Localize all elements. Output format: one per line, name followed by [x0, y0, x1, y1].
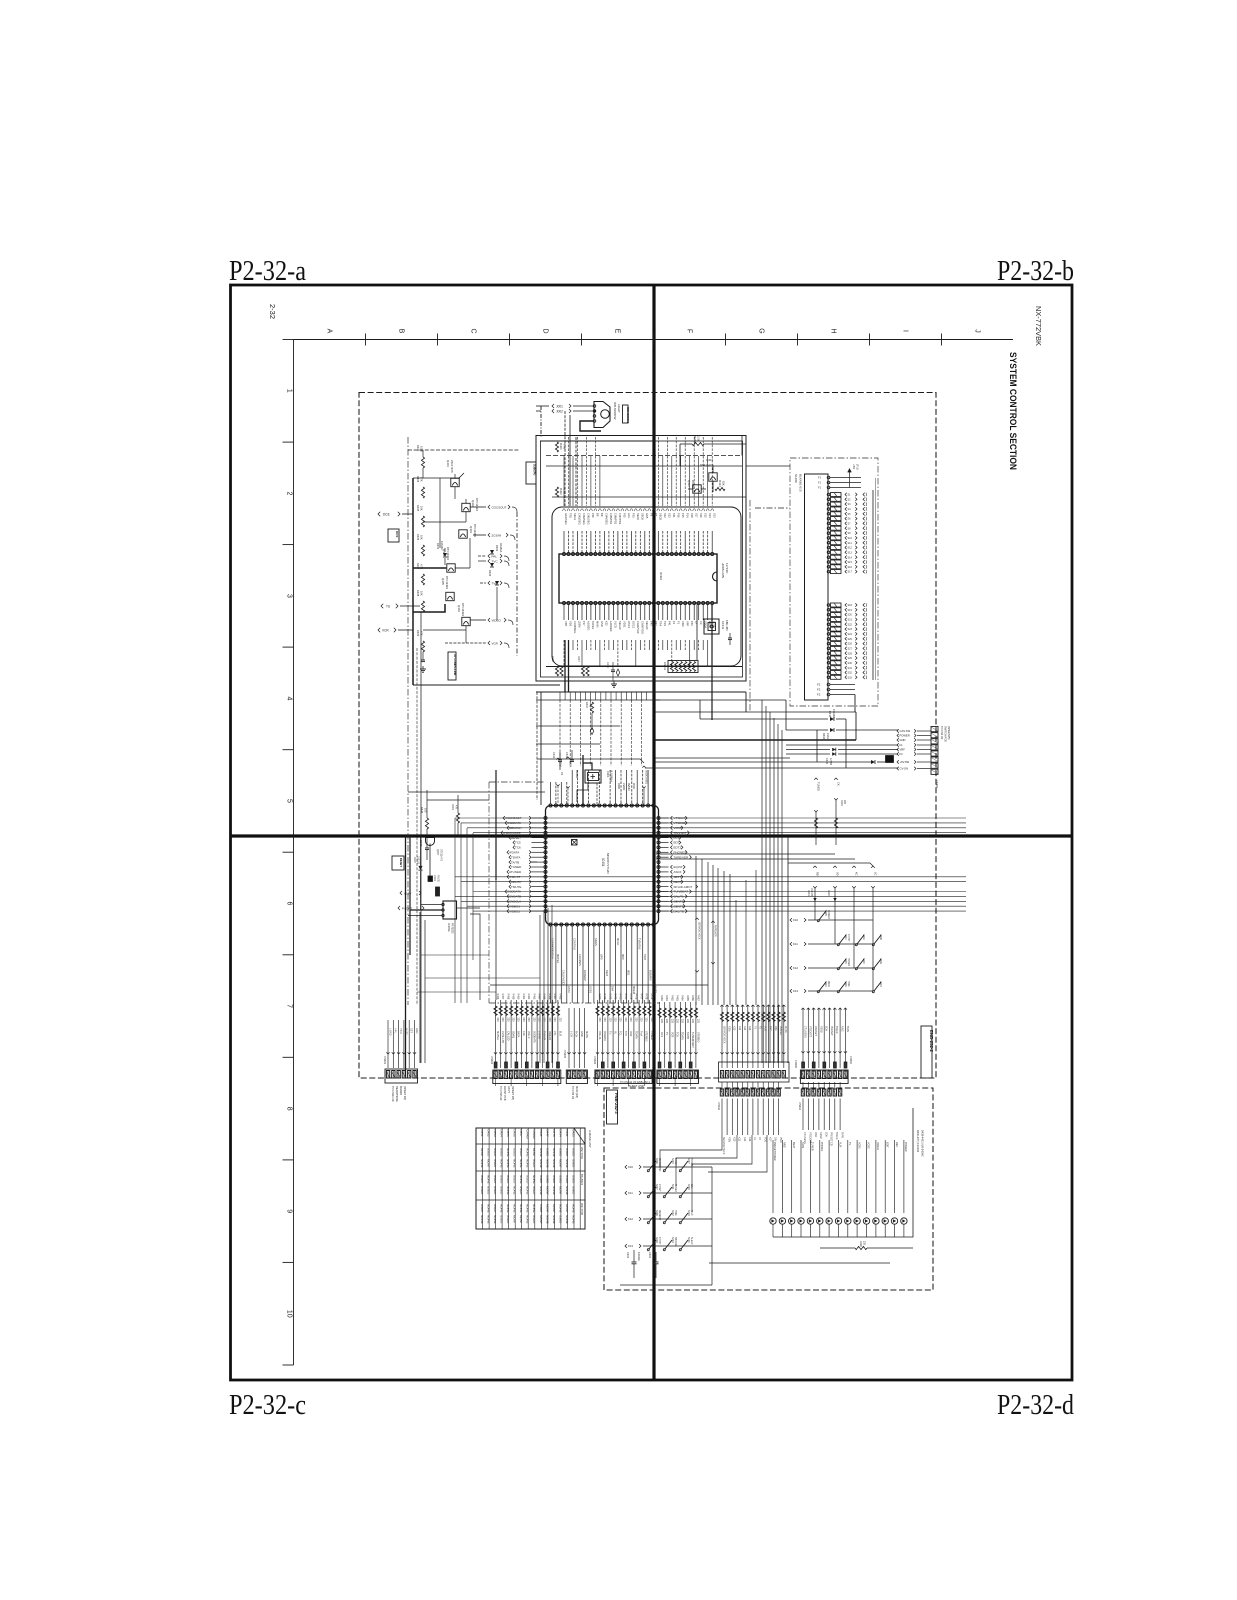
model number NX-772VBK [1034, 306, 1043, 346]
svg-text:K13: K13 [628, 1244, 633, 1248]
svg-text:TA/TB: TA/TB [686, 1032, 689, 1039]
connector CN405 pin row [563, 1050, 588, 1083]
test point TP401 [572, 840, 578, 846]
svg-text:SWITCH PCB: SWITCH PCB [944, 726, 947, 742]
wire bus to CN408 [696, 856, 730, 1005]
svg-text:MONT: MONT [519, 1215, 523, 1224]
connector CN481 pin boxes [931, 726, 950, 789]
svg-text:2CS/IN: 2CS/IN [492, 533, 502, 537]
svg-text:SNOOZE: SNOOZE [674, 1237, 676, 1247]
svg-text:KEY: KEY [769, 1137, 772, 1142]
diode D422 [827, 890, 837, 901]
svg-text:CAL/T1: CAL/T1 [674, 895, 685, 899]
svg-text:D438-443 ] SLR-342MC: D438-443 ] SLR-342MC [921, 1130, 924, 1157]
svg-text:USED: USED [493, 1204, 497, 1213]
svg-text:PST532C: PST532C [451, 923, 454, 934]
svg-text:ASCII: ASCII [674, 870, 682, 874]
microcontroller IC401 body [546, 806, 659, 925]
svg-text:NONE: NONE [565, 1186, 569, 1195]
svg-text:CK: CK [837, 782, 841, 786]
svg-text:UPD: UPD [600, 954, 604, 960]
svg-text:DTA114YS: DTA114YS [700, 463, 714, 467]
svg-text:BP: BP [596, 513, 600, 517]
wire [741, 436, 743, 456]
svg-text:A: A [326, 329, 333, 334]
wire [516, 512, 518, 656]
svg-text:NONE: NONE [513, 1204, 517, 1213]
svg-text:NONE: NONE [532, 1204, 536, 1213]
svg-text:S11: S11 [848, 542, 853, 545]
svg-text:MD1: MD1 [627, 970, 631, 976]
svg-text:TIME: TIME [674, 1210, 676, 1216]
svg-text:K12: K12 [793, 966, 798, 970]
svg-text:STAT: STAT [643, 954, 647, 961]
svg-text:S22: S22 [668, 513, 672, 518]
svg-text:SEG20: SEG20 [645, 621, 649, 630]
svg-text:NONE: NONE [539, 1159, 543, 1168]
svg-text:CENT2: CENT2 [674, 900, 684, 904]
svg-text:R417: R417 [577, 656, 580, 662]
svg-text:LADDER: LADDER [609, 621, 613, 632]
svg-text:SETT: SETT [674, 875, 682, 879]
svg-text:TA/TB: TA/TB [511, 860, 519, 864]
svg-text:J25M: J25M [578, 621, 582, 627]
IC401 top pin wires [551, 770, 654, 804]
svg-text:TAPE/VER: TAPE/VER [714, 925, 717, 937]
wire [413, 477, 460, 479]
label TO CN411 OF [620, 1080, 651, 1088]
net tag DATA vertical [566, 757, 571, 805]
wire [679, 444, 681, 466]
voltage detector IC403 [408, 901, 480, 934]
svg-text:USED: USED [558, 1148, 562, 1157]
svg-text:VDD: VDD [764, 1026, 767, 1031]
svg-text:R413: R413 [693, 436, 697, 443]
node F1 pins [818, 476, 861, 490]
svg-text:USED: USED [480, 1186, 484, 1195]
matrix column wires [788, 863, 877, 991]
crosshair vertical registration line [652, 285, 655, 1380]
svg-text:220: 220 [665, 1019, 668, 1024]
svg-text:USED: USED [500, 1215, 504, 1224]
svg-text:MEM: MEM [827, 981, 829, 986]
wire [536, 699, 660, 701]
svg-text:R.6/35: R.6/35 [437, 875, 439, 882]
svg-text:TO CN5 OF: TO CN5 OF [571, 1086, 574, 1100]
svg-text:K11: K11 [738, 1137, 741, 1142]
svg-text:TUNED: TUNED [511, 865, 522, 869]
svg-text:DATA: DATA [569, 761, 572, 768]
svg-text:NONE: NONE [526, 1148, 530, 1157]
svg-text:USED: USED [571, 1148, 575, 1157]
wire [540, 406, 542, 437]
svg-text:K12: K12 [743, 1026, 746, 1031]
svg-text:D407: D407 [413, 857, 416, 863]
node VRF row [786, 749, 898, 751]
svg-text:R408: R408 [416, 590, 420, 597]
svg-text:R437: R437 [585, 702, 589, 709]
svg-text:S19: S19 [848, 609, 853, 612]
svg-text:MD0: MD0 [621, 954, 625, 960]
wire [552, 496, 746, 498]
svg-text:S32: S32 [848, 672, 853, 675]
svg-text:MN18P73T12D: MN18P73T12D [606, 853, 610, 875]
svg-text:MAIN: MAIN [596, 621, 600, 628]
svg-text:DATA/UP: DATA/UP [583, 970, 587, 981]
svg-text:SDA: SDA [825, 1026, 828, 1031]
wire bold [405, 836, 407, 1078]
svg-text:ACL: ACL [627, 513, 631, 519]
svg-text:NONE: NONE [565, 1159, 569, 1168]
svg-text:Q403: Q403 [469, 526, 473, 533]
svg-text:S28: S28 [848, 652, 853, 655]
svg-text:C414: C414 [606, 662, 609, 668]
svg-text:S21: S21 [848, 619, 853, 622]
svg-text:P36: P36 [591, 513, 595, 518]
wire bus stubs [560, 692, 647, 766]
wire [872, 490, 874, 680]
table MASK LIST [476, 1128, 592, 1229]
svg-text:ENB-252-2: ENB-252-2 [929, 1030, 934, 1053]
remote sensor IC421 [580, 402, 621, 432]
svg-text:P2-32-a: P2-32-a [229, 256, 306, 287]
diode D416 [786, 728, 898, 740]
svg-text:CM7/PD3: CM7/PD3 [618, 513, 622, 525]
label D430-437 1SS133 [916, 1130, 924, 1157]
svg-text:S420: S420 [862, 958, 865, 964]
wire [708, 1135, 767, 1172]
svg-text:CAS.SW: CAS.SW [900, 729, 911, 733]
svg-text:WX-772B: WX-772B [580, 1203, 584, 1215]
svg-text:K10: K10 [733, 1026, 736, 1031]
wire [575, 437, 577, 506]
svg-text:220: 220 [676, 1019, 679, 1024]
svg-text:MONT: MONT [545, 1204, 549, 1213]
svg-text:USED: USED [545, 1175, 549, 1184]
svg-text:PRESET: PRESET [830, 1026, 833, 1036]
transistor Q411 [700, 458, 717, 492]
svg-text:220: 220 [558, 1018, 561, 1023]
svg-text:R480: R480 [660, 995, 663, 1001]
transistor Q405 [441, 576, 454, 601]
svg-text:AT.SET: AT.SET [674, 1158, 677, 1166]
svg-text:R460: R460 [517, 994, 520, 1000]
resistor R404 [416, 476, 425, 498]
transistor Q406 [457, 603, 470, 626]
resistor R416 [560, 666, 563, 676]
svg-text:TVDATA2: TVDATA2 [637, 938, 641, 950]
svg-text:220: 220 [603, 1018, 606, 1023]
svg-text:NONE: NONE [506, 1148, 510, 1157]
svg-text:TR4: TR4 [659, 621, 663, 626]
svg-text:TV: TV [848, 1142, 851, 1146]
node F2 pins [817, 683, 855, 697]
wire [653, 428, 655, 435]
resistor R406 [416, 534, 425, 556]
svg-text:S25: S25 [848, 638, 853, 641]
svg-text:USED: USED [519, 1186, 523, 1195]
wire [709, 1262, 890, 1264]
svg-text:BAL: BAL [690, 1184, 693, 1189]
resistor R401 [555, 442, 566, 452]
svg-text:TIME: TIME [847, 981, 849, 987]
svg-text:D461: D461 [539, 1130, 543, 1138]
net tag OSDCK vertical [642, 766, 647, 805]
IC402 top pin labels [564, 513, 716, 525]
svg-text:CVOL.LTB: CVOL.LTB [501, 1031, 504, 1043]
net tag SERVO vertical [695, 918, 700, 972]
svg-text:TAPE1: TAPE1 [591, 621, 595, 630]
svg-text:(TU): (TU) [856, 464, 860, 470]
label AV COMPU-LINK [448, 652, 457, 680]
node AL5V [400, 891, 421, 895]
svg-text:R476: R476 [634, 994, 637, 1000]
svg-text:220: 220 [691, 1019, 694, 1024]
svg-text:1SS133: 1SS133 [810, 888, 812, 897]
svg-text:D: D [542, 328, 549, 333]
svg-text:TDATA: TDATA [634, 1031, 637, 1039]
svg-text:VIDEO: VIDEO [876, 1142, 879, 1150]
svg-text:BEAT: BEAT [674, 880, 682, 884]
wire [495, 880, 497, 1000]
svg-text:X1: X1 [560, 772, 564, 776]
svg-text:CN404: CN404 [490, 1056, 493, 1064]
wire bold [413, 567, 446, 569]
svg-text:S406: S406 [655, 1158, 658, 1164]
svg-text:S411: S411 [671, 1184, 674, 1190]
svg-text:220: 220 [843, 800, 846, 805]
svg-text:MUTE: MUTE [404, 1028, 407, 1035]
svg-text:AVDD: AVDD [627, 783, 631, 791]
svg-text:1SS133: 1SS133 [832, 709, 835, 718]
svg-text:CALL2D: CALL2D [506, 1031, 509, 1041]
svg-text:CN411: CN411 [717, 1102, 720, 1110]
svg-text:WV-T72V: WV-T72V [580, 1147, 584, 1159]
svg-text:OSDCK/SEL: OSDCK/SEL [645, 770, 648, 785]
svg-text:220: 220 [496, 1018, 499, 1023]
svg-text:SERVO/CHECK: SERVO/CHECK [722, 1026, 725, 1044]
svg-text:R483: R483 [676, 995, 679, 1001]
wire [425, 977, 540, 979]
ceramic resonator CF411 [704, 619, 729, 634]
label ENB-252-2 boxed [921, 1026, 934, 1078]
svg-text:MONT: MONT [545, 1186, 549, 1195]
wire [569, 415, 571, 506]
svg-text:VCR: VCR [670, 1032, 673, 1037]
wire bold [568, 640, 570, 692]
svg-text:CLIP/MODESEL0: CLIP/MODESEL0 [551, 938, 555, 959]
svg-text:SEG6: SEG6 [641, 513, 645, 520]
wire chain-line [749, 500, 751, 712]
svg-text:CX: CX [699, 621, 703, 625]
net tag CK vertical [834, 778, 846, 845]
svg-text:IFDATA: IFDATA [509, 851, 519, 855]
jumper J401 [436, 887, 440, 896]
svg-text:(SHEET2/5): (SHEET2/5) [947, 726, 950, 740]
svg-text:S27: S27 [848, 648, 853, 651]
svg-text:DIM: DIM [774, 1026, 777, 1030]
wire [745, 880, 747, 1005]
svg-text:RESET: RESET [399, 858, 403, 867]
svg-text:220: 220 [624, 1018, 627, 1023]
resistor R413 [680, 436, 746, 446]
svg-text:VD3: VD3 [569, 621, 573, 627]
svg-text:USED: USED [526, 1175, 530, 1184]
svg-text:220: 220 [634, 1018, 637, 1023]
svg-text:S414: S414 [844, 934, 847, 940]
net tag column COCSOUT/2CS.IN/PAL/TVO/VIDEO/VCR [445, 505, 517, 648]
svg-text:VDD: VDD [763, 1137, 766, 1142]
node CV-GN row [645, 767, 898, 769]
page label P2-32-d [997, 1390, 1074, 1421]
switch group S1-S17 [827, 493, 867, 574]
connector CN406 pin row [593, 1056, 652, 1083]
svg-text:NONE: NONE [539, 1186, 543, 1195]
wire [655, 711, 856, 713]
svg-text:TC6: TC6 [515, 846, 521, 850]
svg-text:CN406: CN406 [593, 1056, 596, 1064]
wire [465, 626, 467, 643]
svg-text:10K: 10K [420, 591, 424, 596]
svg-text:CN405: CN405 [563, 1050, 566, 1058]
svg-text:S13: S13 [712, 513, 716, 518]
svg-text:TUNER: TUNER [847, 958, 849, 966]
left grid ruler numbers 1-10 [283, 340, 294, 1366]
svg-text:TAPE: TAPE [801, 1142, 804, 1149]
svg-text:SDA: SDA [824, 1132, 827, 1137]
wire [692, 1135, 752, 1212]
LED array D430-D444 [770, 1108, 913, 1237]
svg-text:NONE: NONE [506, 1204, 510, 1213]
transistor Q403 [459, 524, 477, 538]
svg-text:REMOCON: REMOCON [626, 407, 630, 423]
node F1 row [786, 744, 898, 746]
svg-text:10K: 10K [420, 506, 424, 511]
resistor R402 [555, 487, 566, 497]
svg-text:CM4/SEG: CM4/SEG [605, 513, 609, 525]
svg-text:NONE: NONE [506, 1186, 510, 1195]
svg-text:VIDEO1: VIDEO1 [548, 1031, 551, 1041]
resistor R490 [820, 1241, 913, 1250]
svg-text:R415: R415 [551, 656, 554, 662]
svg-text:220: 220 [548, 1018, 551, 1023]
svg-text:S23: S23 [848, 628, 853, 631]
svg-text:NONE: NONE [526, 1215, 530, 1224]
svg-text:DTA114: DTA114 [691, 480, 695, 490]
connector CN404 pin row [490, 1056, 561, 1083]
node F2 row [786, 753, 898, 755]
svg-text:P6: P6 [650, 513, 654, 517]
svg-text:P35: P35 [623, 513, 627, 518]
wire chain-line OSD boundary [488, 782, 490, 1003]
IC401 pin row bottom [549, 923, 655, 926]
svg-text:SDAQ: SDAQ [512, 1031, 515, 1038]
wire [421, 954, 489, 956]
wire [755, 870, 757, 1005]
svg-text:CONT/NO: CONT/NO [572, 938, 576, 950]
wire [696, 604, 698, 660]
svg-text:USED: USED [532, 1159, 536, 1168]
wire [540, 440, 654, 442]
wire [439, 478, 441, 548]
svg-text:CARRYDO: CARRYDO [641, 621, 645, 634]
transistor Q412 [687, 480, 706, 493]
svg-text:220: 220 [598, 1018, 601, 1023]
svg-text:NONE: NONE [526, 1186, 530, 1195]
svg-text:220: 220 [863, 1241, 866, 1246]
svg-text:AT.SET: AT.SET [658, 1184, 661, 1192]
svg-text:VTSDOF: VTSDOF [674, 816, 686, 820]
svg-text:REC: REC [895, 1142, 898, 1147]
connector CN408 pin row [719, 1060, 798, 1082]
svg-text:4: 4 [286, 697, 293, 701]
IC402 pin row top [563, 553, 714, 556]
svg-text:VCNT: VCNT [674, 826, 682, 830]
wire [660, 1135, 722, 1167]
svg-text:L-GND: L-GND [538, 1031, 541, 1039]
svg-text:D430-437 ] 1SS133: D430-437 ] 1SS133 [916, 1130, 919, 1153]
svg-text:COM/SEG: COM/SEG [573, 621, 577, 633]
svg-text:FNB-252-3: FNB-252-3 [614, 1093, 619, 1114]
wire bundle to CN405 [567, 1008, 588, 1068]
svg-text:CENT3: CENT3 [674, 904, 684, 908]
svg-text:NONE: NONE [487, 1204, 491, 1213]
svg-text:R467: R467 [553, 994, 556, 1000]
wire [660, 1202, 700, 1204]
wire [536, 800, 538, 805]
dashed board outline FNB-252-3 (lower) [604, 1088, 933, 1290]
svg-text:TVO: TVO [492, 581, 499, 585]
wire GND trunk [655, 739, 856, 741]
svg-text:D423: D423 [571, 1130, 575, 1138]
svg-text:NONE: NONE [480, 1215, 484, 1224]
svg-text:EDIT: EDIT [885, 1142, 888, 1148]
svg-text:EQ/NT: EQ/NT [674, 865, 683, 869]
svg-text:S17: S17 [694, 513, 698, 518]
chain-line keypad boundary [790, 458, 878, 706]
svg-text:P43: P43 [650, 621, 654, 626]
svg-text:NONE: NONE [571, 1204, 575, 1213]
diode D401 [436, 541, 447, 565]
svg-text:MONT: MONT [513, 1215, 517, 1224]
wire [755, 507, 790, 509]
svg-text:MCLK: MCLK [616, 938, 620, 945]
svg-text:CN407: CN407 [691, 1040, 694, 1048]
svg-text:E: E [614, 329, 621, 334]
svg-text:220: 220 [619, 1018, 622, 1023]
svg-text:NONE: NONE [558, 1204, 562, 1213]
wire [854, 695, 856, 713]
svg-text:TO CN110 OF: TO CN110 OF [391, 1086, 394, 1102]
svg-text:R482: R482 [670, 995, 673, 1001]
wire [656, 858, 855, 860]
label REMOCON [623, 405, 631, 423]
svg-text:L-CH: L-CH [569, 1031, 572, 1037]
wire bus from keypad [762, 700, 782, 1063]
svg-text:BUZZ: BUZZ [654, 986, 658, 993]
svg-text:LX: LX [694, 621, 698, 624]
svg-text:S415: S415 [844, 958, 847, 964]
wire [496, 587, 498, 620]
svg-text:(SHEET 2/32): (SHEET 2/32) [628, 1084, 644, 1088]
svg-text:J002: J002 [556, 410, 563, 414]
svg-text:K12: K12 [628, 1217, 633, 1221]
svg-text:OSC2: OSC2 [632, 621, 636, 629]
svg-text:D478: D478 [552, 1130, 556, 1138]
svg-text:IC401: IC401 [601, 858, 605, 867]
svg-text:MONT: MONT [558, 1159, 562, 1168]
wire [546, 465, 742, 467]
